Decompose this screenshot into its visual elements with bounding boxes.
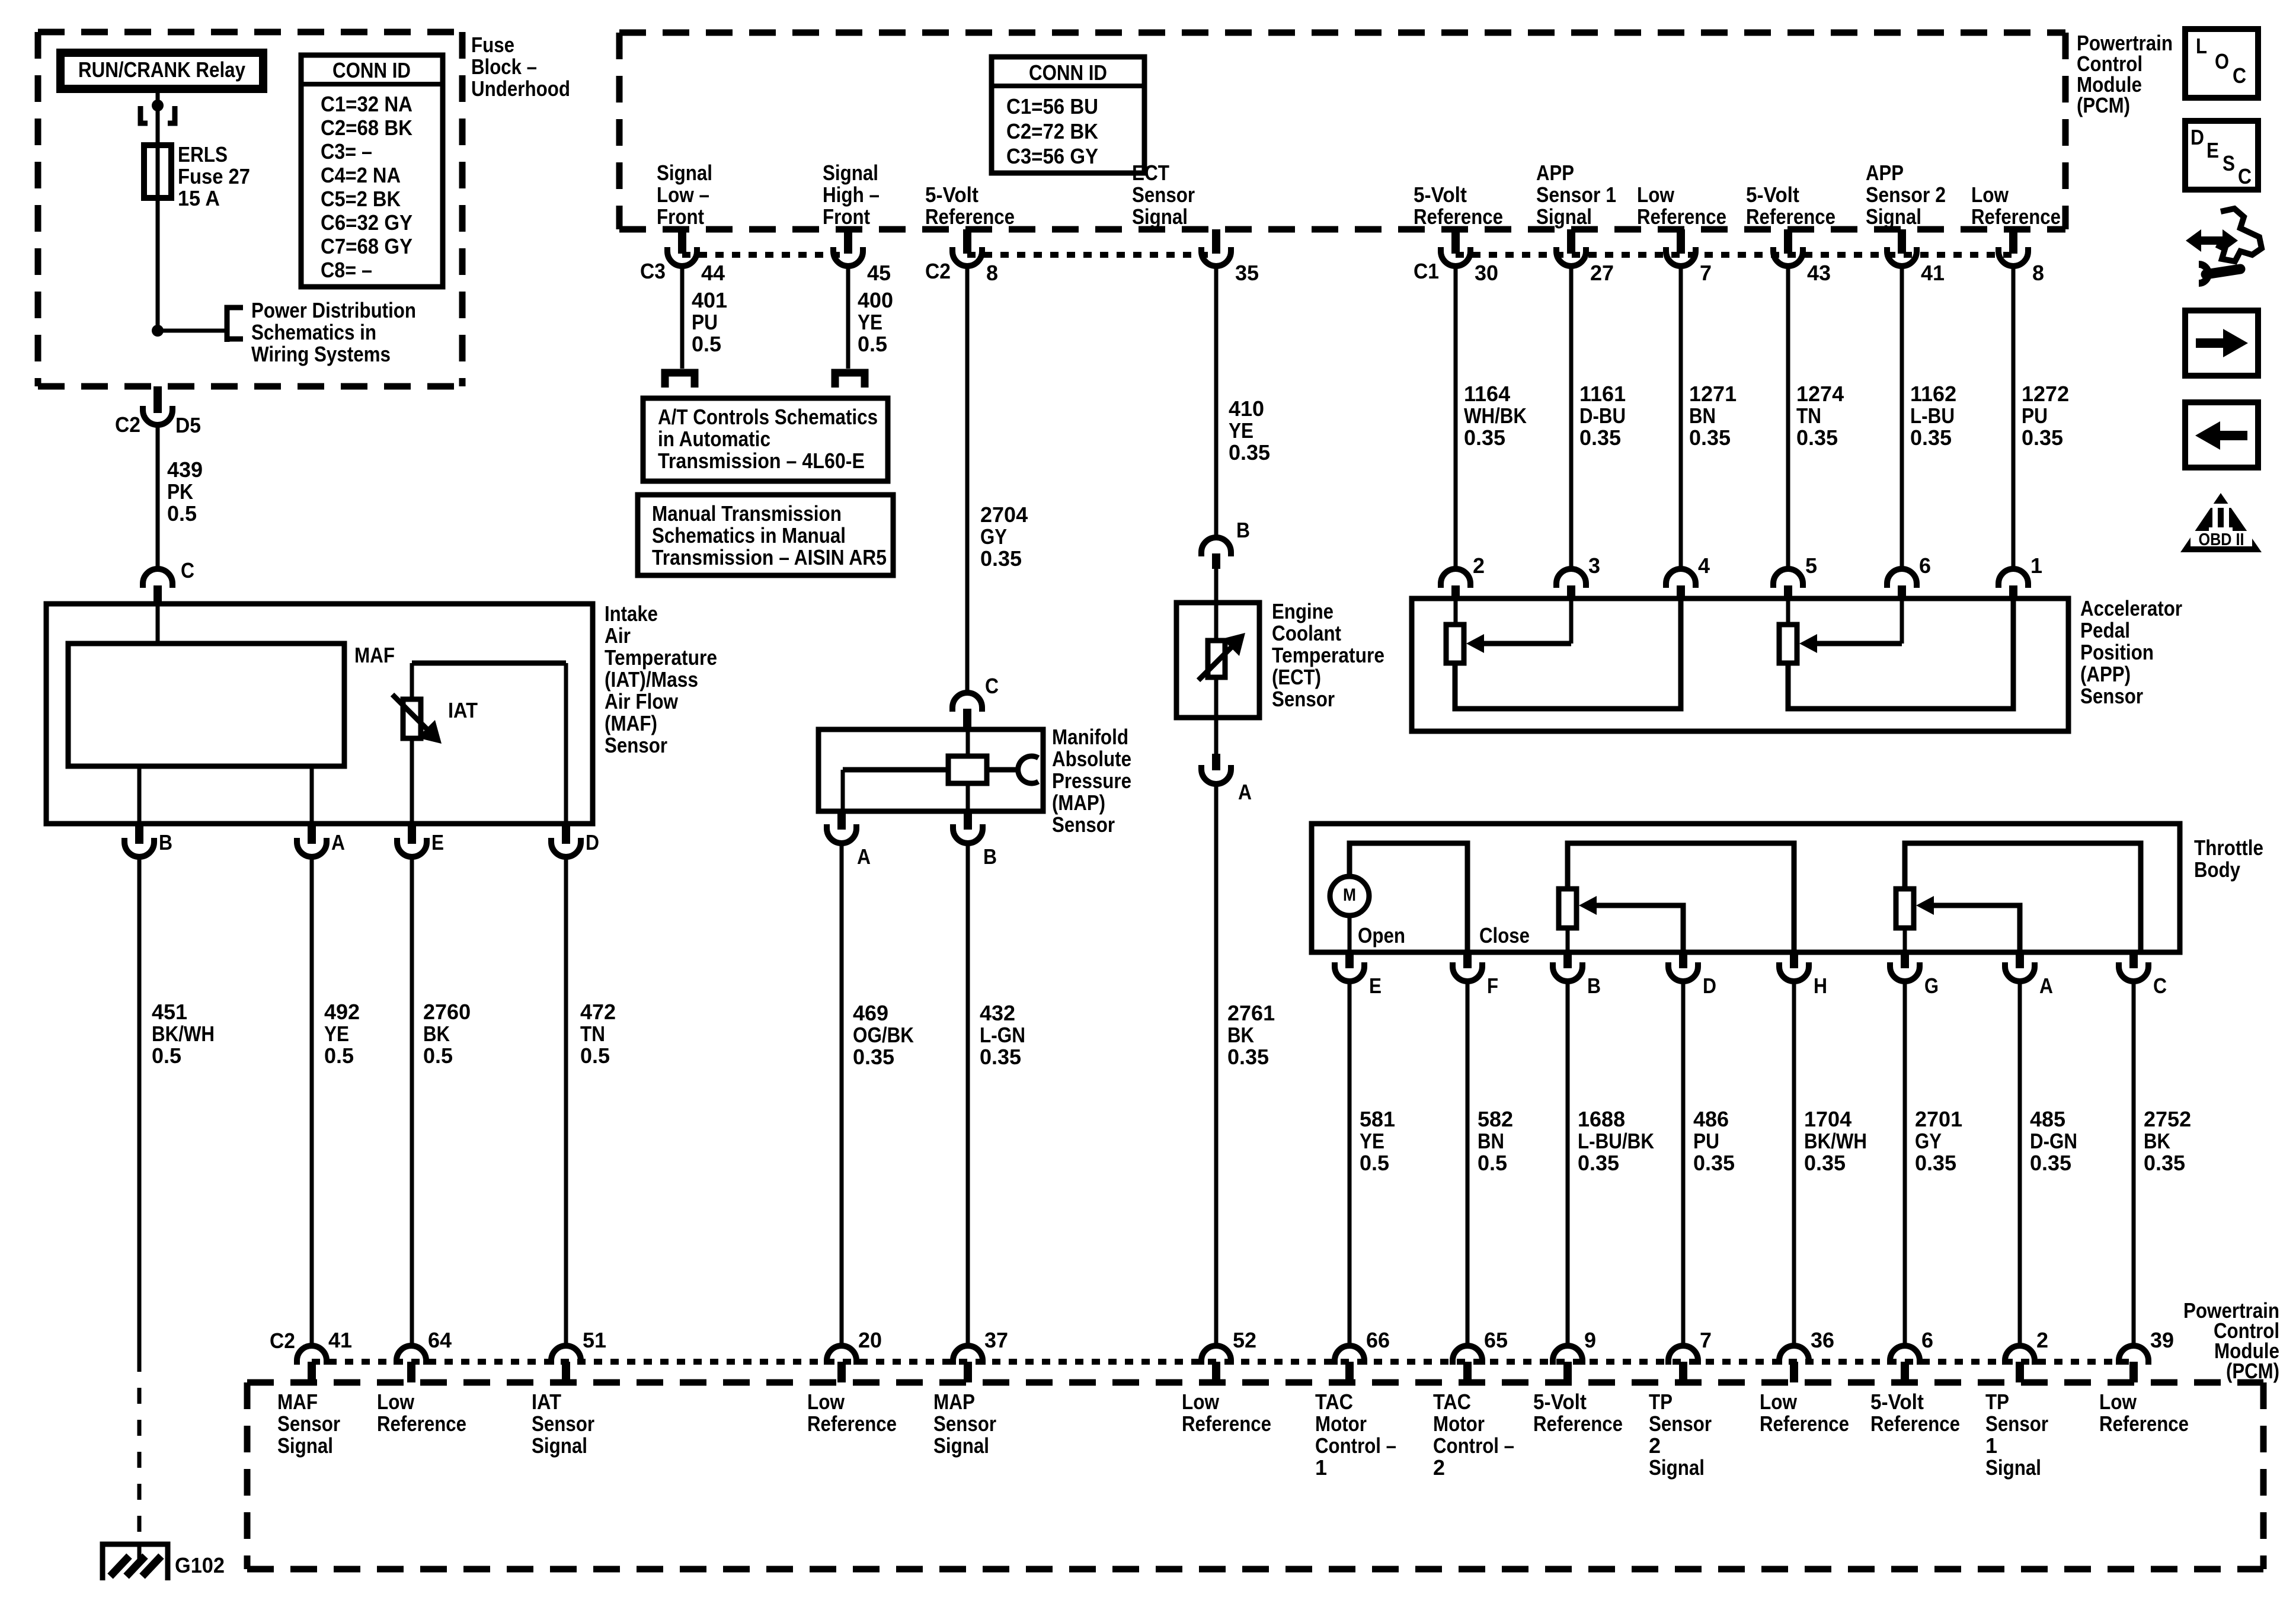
- svg-text:YE: YE: [858, 310, 882, 334]
- svg-text:L-BU: L-BU: [1910, 404, 1955, 428]
- svg-text:YE: YE: [324, 1022, 349, 1046]
- svg-text:M: M: [1343, 885, 1356, 905]
- svg-text:Sensor 1: Sensor 1: [1536, 183, 1616, 207]
- svg-text:39: 39: [2150, 1328, 2174, 1352]
- svg-text:0.35: 0.35: [1915, 1151, 1956, 1175]
- svg-text:1161: 1161: [1579, 382, 1626, 406]
- svg-text:5-Volt: 5-Volt: [1414, 183, 1467, 207]
- svg-text:4: 4: [1698, 553, 1710, 578]
- svg-text:GY: GY: [1915, 1129, 1942, 1153]
- svg-text:B: B: [1236, 518, 1250, 542]
- svg-text:Throttle: Throttle: [2194, 836, 2263, 860]
- svg-text:ECT: ECT: [1132, 161, 1169, 185]
- svg-text:BK/WH: BK/WH: [152, 1022, 215, 1046]
- svg-text:IAT: IAT: [532, 1390, 561, 1414]
- svg-text:485: 485: [2030, 1107, 2065, 1131]
- svg-text:IAT: IAT: [448, 698, 478, 722]
- svg-text:(IAT)/Mass: (IAT)/Mass: [605, 667, 698, 692]
- svg-text:C2: C2: [270, 1329, 295, 1353]
- svg-text:2701: 2701: [1915, 1107, 1962, 1131]
- svg-text:C2=72 BK: C2=72 BK: [1006, 119, 1098, 143]
- svg-text:Control –: Control –: [1433, 1433, 1514, 1458]
- svg-text:0.5: 0.5: [152, 1044, 181, 1068]
- svg-text:45: 45: [867, 261, 891, 285]
- svg-text:Reference: Reference: [1533, 1411, 1623, 1436]
- svg-text:27: 27: [1590, 261, 1614, 285]
- svg-text:0.35: 0.35: [1796, 425, 1838, 450]
- svg-text:Coolant: Coolant: [1272, 621, 1341, 645]
- svg-text:Reference: Reference: [1637, 204, 1726, 229]
- svg-text:PU: PU: [1693, 1129, 1719, 1153]
- svg-text:Low: Low: [2099, 1390, 2137, 1414]
- svg-text:C1: C1: [1414, 259, 1439, 283]
- svg-text:0.35: 0.35: [1693, 1151, 1735, 1175]
- svg-text:6: 6: [1921, 1328, 1933, 1352]
- svg-text:0.35: 0.35: [1910, 425, 1952, 450]
- svg-text:C2=68 BK: C2=68 BK: [321, 116, 412, 140]
- svg-text:C1=56 BU: C1=56 BU: [1006, 94, 1098, 119]
- svg-text:BK: BK: [2144, 1129, 2170, 1153]
- svg-text:C7=68 GY: C7=68 GY: [321, 234, 412, 258]
- svg-text:Low: Low: [1971, 183, 2009, 207]
- svg-text:6: 6: [1919, 553, 1931, 578]
- svg-text:2760: 2760: [423, 1000, 471, 1024]
- svg-text:(ECT): (ECT): [1272, 665, 1321, 689]
- svg-text:Close: Close: [1479, 923, 1530, 948]
- svg-text:1704: 1704: [1804, 1107, 1851, 1131]
- svg-text:L: L: [2196, 34, 2207, 58]
- svg-text:Low –: Low –: [657, 183, 709, 207]
- svg-text:Fuse: Fuse: [471, 33, 514, 57]
- svg-text:(PCM): (PCM): [2077, 93, 2130, 117]
- svg-text:Signal: Signal: [1649, 1455, 1705, 1480]
- svg-text:Manifold: Manifold: [1052, 725, 1128, 749]
- svg-text:BK: BK: [1227, 1023, 1254, 1047]
- svg-text:Reference: Reference: [1746, 204, 1835, 229]
- svg-text:C3=56 GY: C3=56 GY: [1006, 144, 1098, 168]
- svg-text:Transmission – 4L60-E: Transmission – 4L60-E: [658, 449, 865, 473]
- svg-text:Front: Front: [657, 204, 704, 229]
- svg-text:Absolute: Absolute: [1052, 747, 1131, 771]
- svg-text:WH/BK: WH/BK: [1464, 404, 1527, 428]
- svg-text:2: 2: [2036, 1328, 2048, 1352]
- svg-text:C5=2 BK: C5=2 BK: [321, 187, 401, 211]
- svg-text:Schematics in Manual: Schematics in Manual: [652, 523, 846, 548]
- svg-text:Reference: Reference: [1182, 1411, 1271, 1436]
- svg-text:PU: PU: [2022, 404, 2048, 428]
- svg-text:Sensor 2: Sensor 2: [1866, 183, 1946, 207]
- svg-text:Power Distribution: Power Distribution: [251, 298, 416, 322]
- svg-text:Sensor: Sensor: [2080, 684, 2143, 708]
- svg-text:Signal: Signal: [277, 1433, 333, 1458]
- svg-text:0.35: 0.35: [1464, 425, 1505, 450]
- svg-text:Reference: Reference: [1414, 204, 1503, 229]
- svg-text:MAF: MAF: [277, 1390, 318, 1414]
- svg-text:TP: TP: [1985, 1390, 2009, 1414]
- svg-text:D-BU: D-BU: [1579, 404, 1626, 428]
- svg-text:in Automatic: in Automatic: [658, 427, 770, 451]
- svg-text:432: 432: [980, 1001, 1015, 1025]
- svg-text:581: 581: [1360, 1107, 1395, 1131]
- svg-text:0.5: 0.5: [423, 1044, 453, 1068]
- svg-text:BK: BK: [423, 1022, 450, 1046]
- svg-text:C8= –: C8= –: [321, 258, 372, 282]
- svg-text:Schematics in: Schematics in: [251, 320, 376, 344]
- svg-text:Sensor: Sensor: [1272, 687, 1335, 711]
- svg-text:E: E: [1369, 974, 1382, 998]
- svg-text:3: 3: [1588, 553, 1600, 578]
- svg-text:Signal: Signal: [532, 1433, 587, 1458]
- svg-text:451: 451: [152, 1000, 187, 1024]
- svg-text:D: D: [586, 830, 599, 854]
- svg-text:1: 1: [1985, 1433, 1997, 1458]
- svg-text:1: 1: [1315, 1455, 1327, 1480]
- svg-text:2: 2: [1433, 1455, 1445, 1480]
- svg-text:Reference: Reference: [377, 1411, 466, 1436]
- svg-text:Temperature: Temperature: [1272, 643, 1384, 667]
- svg-text:L-GN: L-GN: [980, 1023, 1025, 1047]
- svg-text:0.5: 0.5: [167, 501, 197, 526]
- svg-text:0.35: 0.35: [1804, 1151, 1846, 1175]
- svg-text:D: D: [2191, 125, 2204, 149]
- svg-text:0.5: 0.5: [858, 332, 887, 356]
- svg-text:Low: Low: [1637, 183, 1675, 207]
- svg-text:Sensor: Sensor: [605, 733, 667, 757]
- svg-text:0.35: 0.35: [2144, 1151, 2185, 1175]
- svg-text:CONN ID: CONN ID: [332, 58, 411, 82]
- svg-text:BN: BN: [1689, 404, 1716, 428]
- svg-text:D-GN: D-GN: [2030, 1129, 2077, 1153]
- svg-text:Wiring Systems: Wiring Systems: [251, 342, 391, 366]
- svg-text:0.35: 0.35: [1579, 425, 1621, 450]
- svg-text:44: 44: [701, 261, 725, 285]
- svg-text:Signal: Signal: [1985, 1455, 2041, 1480]
- svg-text:0.35: 0.35: [1689, 425, 1731, 450]
- svg-text:C1=32 NA: C1=32 NA: [321, 92, 412, 116]
- svg-text:2: 2: [1649, 1433, 1661, 1458]
- svg-text:Motor: Motor: [1433, 1411, 1485, 1436]
- svg-text:TAC: TAC: [1315, 1390, 1353, 1414]
- svg-text:36: 36: [1811, 1328, 1834, 1352]
- svg-text:Motor: Motor: [1315, 1411, 1367, 1436]
- svg-text:0.35: 0.35: [853, 1045, 894, 1069]
- svg-text:Pressure: Pressure: [1052, 769, 1131, 793]
- svg-text:Intake: Intake: [605, 601, 658, 626]
- svg-text:G: G: [1924, 974, 1939, 998]
- svg-text:Air: Air: [605, 623, 631, 648]
- svg-text:Pedal: Pedal: [2080, 618, 2130, 642]
- svg-text:52: 52: [1233, 1328, 1256, 1352]
- svg-text:BK/WH: BK/WH: [1804, 1129, 1867, 1153]
- svg-text:5: 5: [1805, 553, 1817, 578]
- svg-text:Reference: Reference: [2099, 1411, 2189, 1436]
- svg-text:Signal: Signal: [657, 161, 712, 185]
- svg-text:Low: Low: [1182, 1390, 1220, 1414]
- svg-text:Underhood: Underhood: [471, 76, 570, 101]
- svg-text:MAP: MAP: [933, 1390, 975, 1414]
- svg-text:400: 400: [858, 288, 893, 312]
- svg-text:410: 410: [1229, 396, 1264, 421]
- svg-text:1274: 1274: [1796, 382, 1844, 406]
- svg-text:Reference: Reference: [1971, 204, 2061, 229]
- svg-text:A: A: [331, 830, 345, 854]
- svg-text:2761: 2761: [1227, 1001, 1275, 1025]
- svg-text:A: A: [2039, 974, 2053, 998]
- svg-text:A: A: [1238, 780, 1252, 804]
- svg-text:8: 8: [2032, 261, 2044, 285]
- svg-text:0.35: 0.35: [980, 546, 1022, 571]
- svg-text:C2: C2: [115, 412, 140, 437]
- svg-text:Transmission – AISIN AR5: Transmission – AISIN AR5: [652, 545, 887, 569]
- svg-text:582: 582: [1478, 1107, 1513, 1131]
- svg-text:D5: D5: [175, 413, 201, 437]
- svg-text:TP: TP: [1649, 1390, 1673, 1414]
- svg-text:8: 8: [986, 261, 998, 285]
- svg-text:TN: TN: [580, 1022, 605, 1046]
- svg-text:492: 492: [324, 1000, 360, 1024]
- svg-text:0.5: 0.5: [580, 1044, 610, 1068]
- svg-text:Sensor: Sensor: [532, 1411, 594, 1436]
- svg-text:(MAF): (MAF): [605, 711, 657, 735]
- svg-text:0.35: 0.35: [2030, 1151, 2071, 1175]
- svg-text:1688: 1688: [1578, 1107, 1625, 1131]
- svg-text:439: 439: [167, 457, 203, 482]
- svg-text:MAF: MAF: [354, 643, 395, 667]
- svg-text:Accelerator: Accelerator: [2080, 596, 2182, 620]
- svg-text:C: C: [985, 674, 999, 698]
- svg-text:Body: Body: [2194, 857, 2240, 882]
- svg-text:C3= –: C3= –: [321, 139, 372, 164]
- svg-text:Sensor: Sensor: [277, 1411, 340, 1436]
- svg-text:YE: YE: [1229, 418, 1253, 443]
- svg-text:Control –: Control –: [1315, 1433, 1396, 1458]
- svg-text:1: 1: [2030, 553, 2042, 578]
- svg-text:2704: 2704: [980, 502, 1028, 527]
- svg-text:486: 486: [1693, 1107, 1729, 1131]
- svg-text:A/T Controls Schematics: A/T Controls Schematics: [658, 405, 878, 429]
- svg-text:E: E: [431, 830, 444, 854]
- svg-text:7: 7: [1700, 1328, 1712, 1352]
- svg-text:0.35: 0.35: [1227, 1045, 1269, 1069]
- svg-text:401: 401: [692, 288, 727, 312]
- svg-text:Sensor: Sensor: [1649, 1411, 1712, 1436]
- svg-text:Low: Low: [377, 1390, 415, 1414]
- svg-text:Sensor: Sensor: [933, 1411, 996, 1436]
- svg-text:Fuse 27: Fuse 27: [178, 164, 250, 188]
- svg-text:Block –: Block –: [471, 55, 537, 79]
- svg-text:Signal: Signal: [823, 161, 878, 185]
- svg-text:Open: Open: [1358, 923, 1405, 948]
- svg-text:30: 30: [1475, 261, 1498, 285]
- svg-text:Front: Front: [823, 204, 870, 229]
- svg-text:ERLS: ERLS: [178, 142, 228, 167]
- svg-text:0.35: 0.35: [1578, 1151, 1619, 1175]
- svg-text:472: 472: [580, 1000, 616, 1024]
- svg-text:BN: BN: [1478, 1129, 1504, 1153]
- svg-text:Air Flow: Air Flow: [605, 689, 679, 713]
- svg-text:Sensor: Sensor: [1132, 183, 1195, 207]
- svg-text:S: S: [2223, 151, 2235, 175]
- svg-text:O: O: [2215, 49, 2229, 73]
- svg-text:C: C: [2233, 63, 2246, 88]
- svg-text:9: 9: [1584, 1328, 1596, 1352]
- svg-text:L-BU/BK: L-BU/BK: [1578, 1129, 1654, 1153]
- svg-text:High –: High –: [823, 183, 880, 207]
- svg-text:OG/BK: OG/BK: [853, 1023, 914, 1047]
- svg-text:5-Volt: 5-Volt: [925, 183, 978, 207]
- svg-text:F: F: [1487, 974, 1498, 998]
- svg-text:TN: TN: [1796, 404, 1821, 428]
- svg-text:Reference: Reference: [807, 1411, 897, 1436]
- svg-text:OBD II: OBD II: [2199, 530, 2244, 549]
- svg-text:Temperature: Temperature: [605, 645, 717, 670]
- svg-text:1271: 1271: [1689, 382, 1737, 406]
- svg-text:CONN ID: CONN ID: [1029, 60, 1107, 85]
- svg-text:C2: C2: [925, 259, 951, 283]
- svg-text:Signal: Signal: [1132, 204, 1188, 229]
- svg-text:0.35: 0.35: [1229, 440, 1270, 465]
- svg-text:TAC: TAC: [1433, 1390, 1471, 1414]
- svg-text:469: 469: [853, 1001, 888, 1025]
- svg-text:43: 43: [1807, 261, 1831, 285]
- svg-text:5-Volt: 5-Volt: [1746, 183, 1799, 207]
- svg-text:66: 66: [1366, 1328, 1390, 1352]
- svg-text:1162: 1162: [1910, 382, 1956, 406]
- svg-text:RUN/CRANK Relay: RUN/CRANK Relay: [78, 57, 245, 82]
- svg-text:35: 35: [1235, 261, 1259, 285]
- svg-text:A: A: [857, 844, 871, 869]
- svg-text:Signal: Signal: [1536, 204, 1592, 229]
- svg-text:0.5: 0.5: [692, 332, 721, 356]
- svg-text:GY: GY: [980, 524, 1007, 549]
- svg-text:64: 64: [428, 1328, 452, 1352]
- svg-text:C3: C3: [640, 259, 666, 283]
- svg-text:0.35: 0.35: [980, 1045, 1021, 1069]
- svg-text:B: B: [159, 830, 172, 854]
- svg-text:5-Volt: 5-Volt: [1533, 1390, 1587, 1414]
- svg-text:C: C: [181, 558, 194, 582]
- svg-text:C6=32 GY: C6=32 GY: [321, 210, 412, 235]
- svg-text:PK: PK: [167, 479, 193, 504]
- svg-text:20: 20: [858, 1328, 882, 1352]
- svg-text:C: C: [2238, 164, 2252, 188]
- svg-text:1272: 1272: [2022, 382, 2069, 406]
- svg-text:APP: APP: [1866, 161, 1904, 185]
- svg-text:(PCM): (PCM): [2226, 1359, 2279, 1383]
- svg-text:(APP): (APP): [2080, 662, 2131, 686]
- svg-text:(MAP): (MAP): [1052, 790, 1105, 815]
- svg-text:15 A: 15 A: [178, 186, 220, 210]
- svg-text:41: 41: [1921, 261, 1945, 285]
- svg-text:37: 37: [984, 1328, 1008, 1352]
- svg-text:Reference: Reference: [925, 204, 1015, 229]
- svg-text:51: 51: [583, 1328, 606, 1352]
- svg-text:C4=2 NA: C4=2 NA: [321, 163, 401, 187]
- svg-text:7: 7: [1700, 261, 1712, 285]
- svg-text:Low: Low: [1760, 1390, 1798, 1414]
- svg-text:G102: G102: [175, 1553, 225, 1577]
- svg-text:D: D: [1703, 974, 1716, 998]
- svg-text:2752: 2752: [2144, 1107, 2191, 1131]
- svg-text:0.5: 0.5: [324, 1044, 354, 1068]
- svg-text:YE: YE: [1360, 1129, 1384, 1153]
- svg-text:B: B: [1587, 974, 1601, 998]
- svg-text:Sensor: Sensor: [1985, 1411, 2048, 1436]
- svg-text:Sensor: Sensor: [1052, 812, 1115, 837]
- svg-text:0.5: 0.5: [1478, 1151, 1507, 1175]
- svg-text:Position: Position: [2080, 640, 2154, 664]
- svg-text:41: 41: [328, 1328, 352, 1352]
- svg-text:Signal: Signal: [933, 1433, 989, 1458]
- svg-text:Manual Transmission: Manual Transmission: [652, 501, 842, 526]
- svg-text:65: 65: [1484, 1328, 1508, 1352]
- svg-text:PU: PU: [692, 310, 718, 334]
- svg-text:C: C: [2153, 974, 2167, 998]
- svg-text:2: 2: [1473, 553, 1485, 578]
- svg-text:APP: APP: [1536, 161, 1574, 185]
- svg-text:0.35: 0.35: [2022, 425, 2063, 450]
- svg-text:Signal: Signal: [1866, 204, 1921, 229]
- svg-text:H: H: [1814, 974, 1827, 998]
- svg-text:Reference: Reference: [1760, 1411, 1849, 1436]
- svg-text:0.5: 0.5: [1360, 1151, 1389, 1175]
- svg-text:B: B: [983, 844, 997, 869]
- svg-text:Low: Low: [807, 1390, 845, 1414]
- svg-text:Engine: Engine: [1272, 599, 1334, 623]
- svg-text:E: E: [2207, 138, 2219, 162]
- svg-text:Reference: Reference: [1870, 1411, 1960, 1436]
- svg-text:1164: 1164: [1464, 382, 1510, 406]
- svg-text:5-Volt: 5-Volt: [1870, 1390, 1924, 1414]
